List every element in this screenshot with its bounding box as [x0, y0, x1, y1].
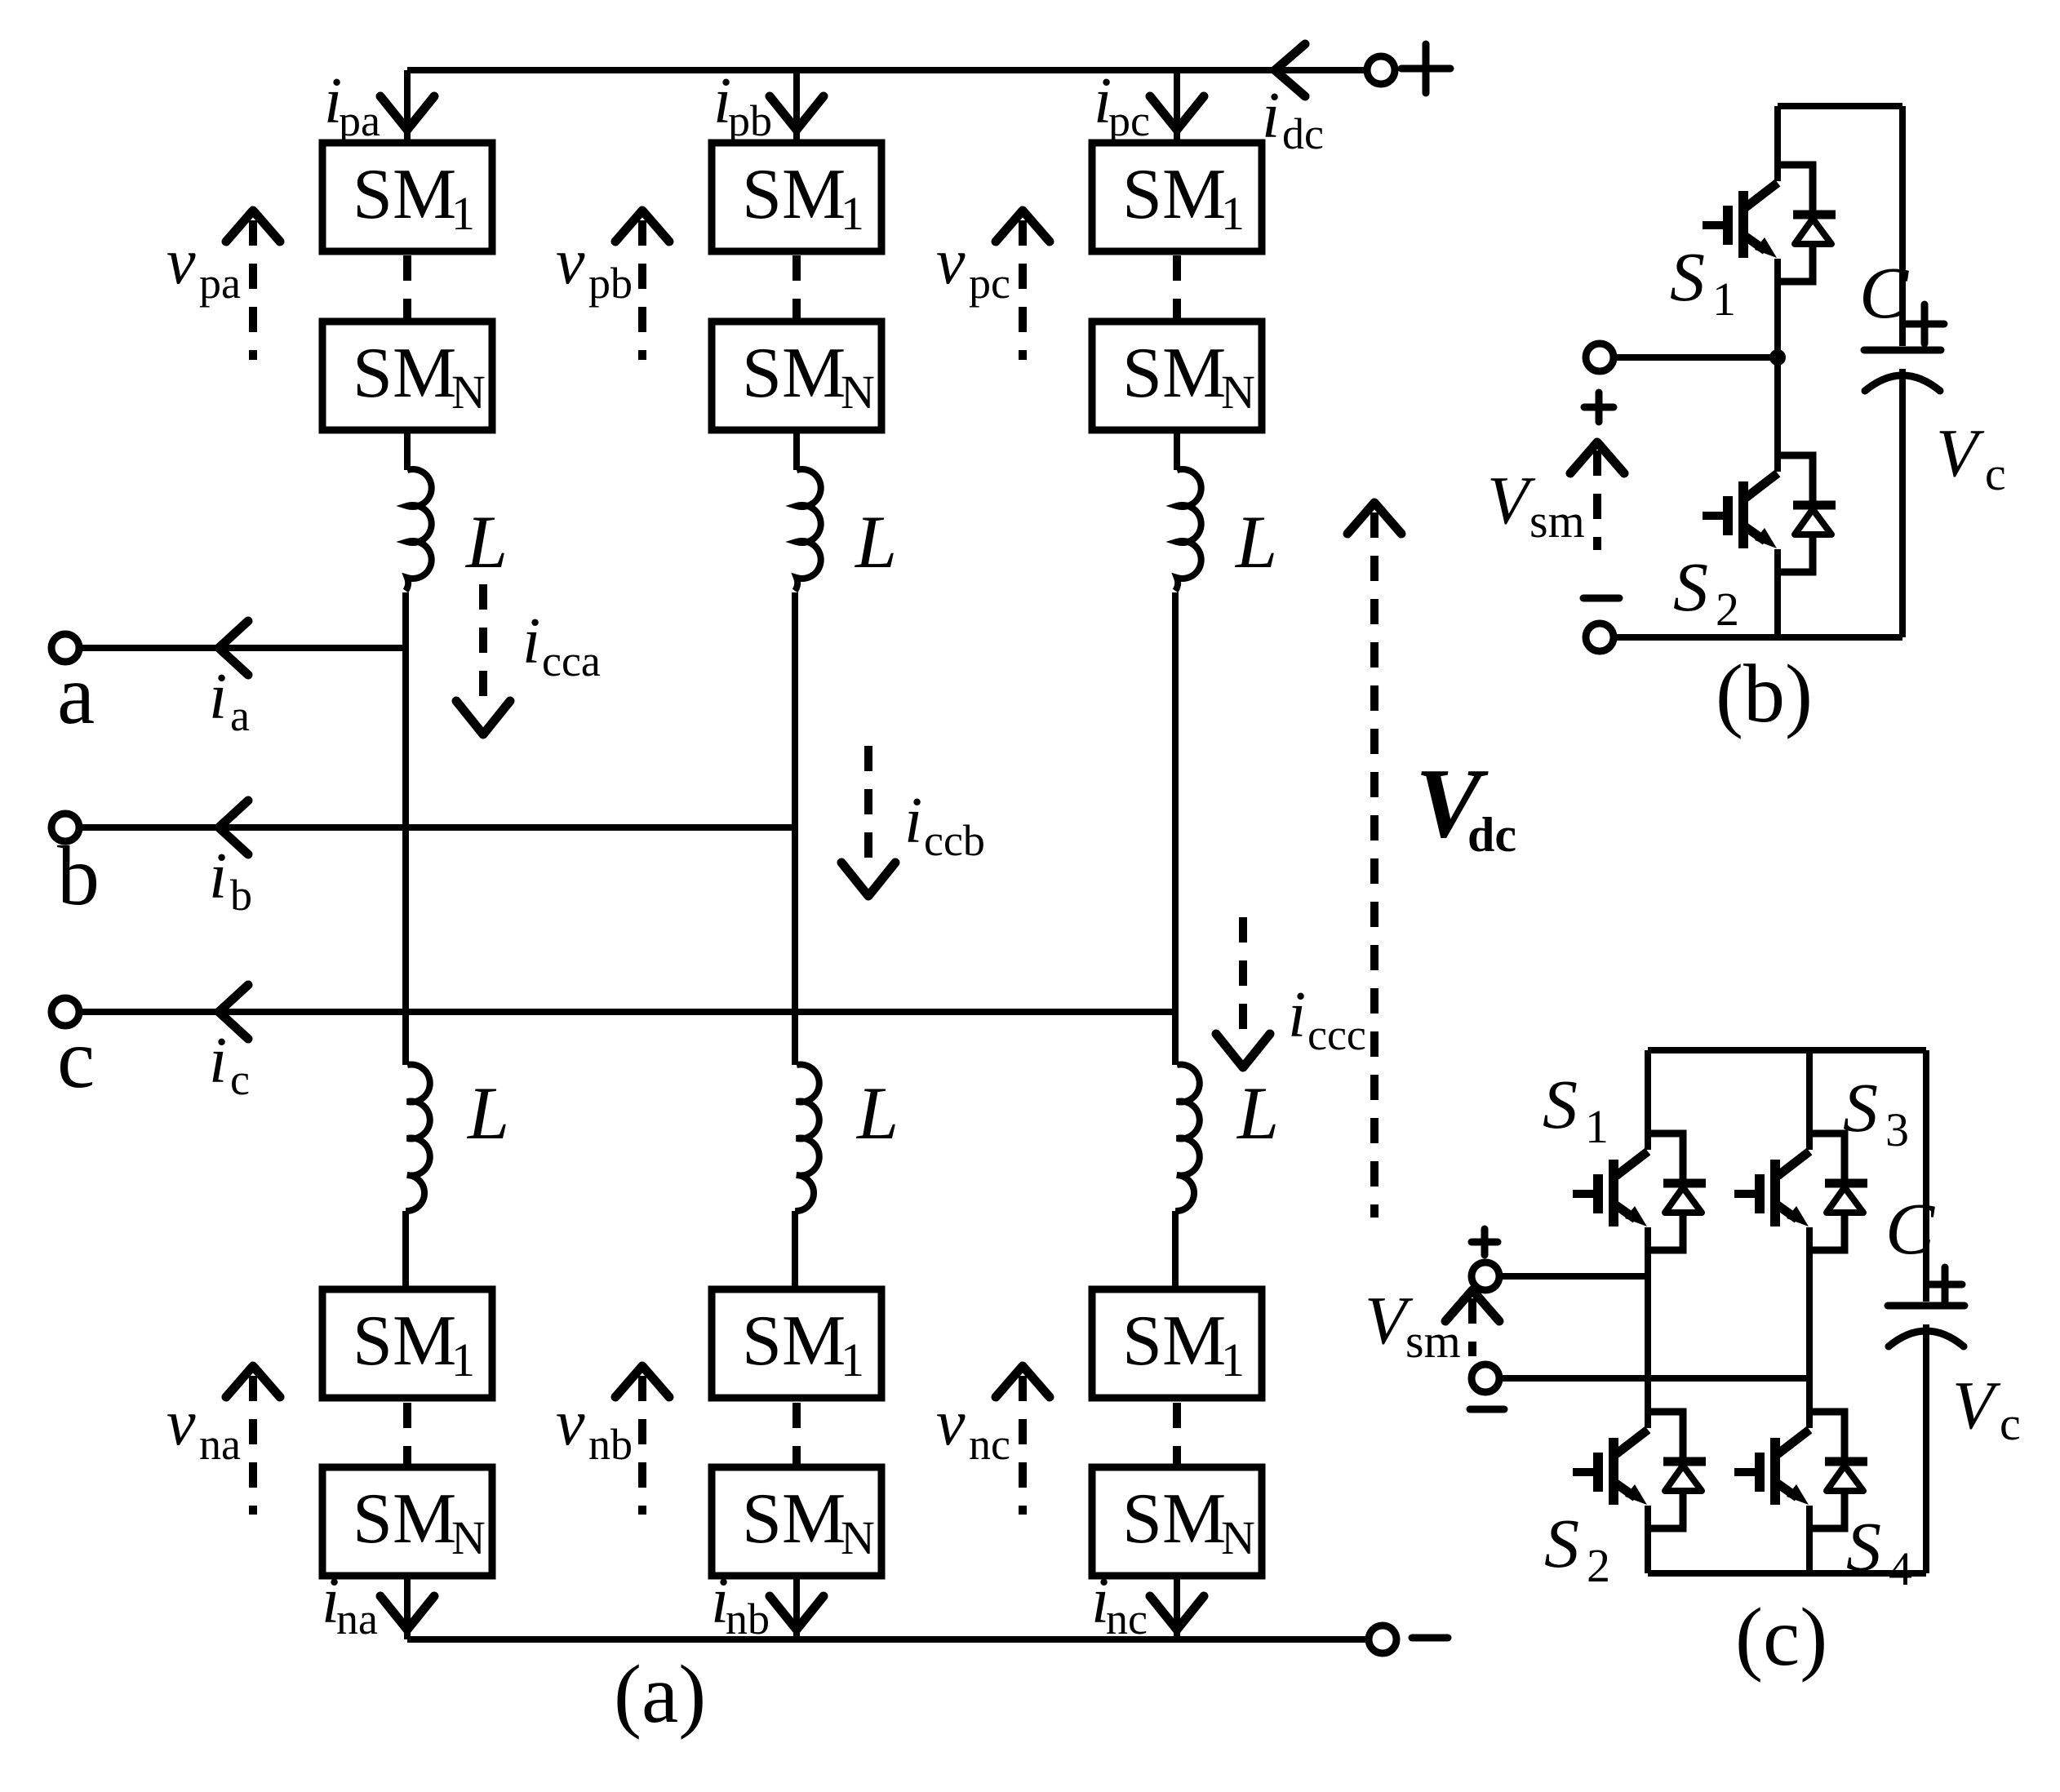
svg-text:SM: SM [353, 334, 456, 413]
wire from lower inductor to SM1 lower c [1172, 1211, 1179, 1289]
svg-text:v: v [166, 1387, 196, 1459]
dashed wire: series submodules upper arm a [403, 255, 411, 320]
submodule box SM1 lower arm b [712, 1289, 881, 1398]
(c) wire: right leg segments [1806, 1050, 1813, 1573]
svg-text:C: C [1885, 1189, 1935, 1270]
(b) input terminal + [1586, 344, 1614, 371]
svg-text:L: L [854, 500, 897, 583]
svg-text:v: v [166, 226, 196, 298]
(b) wire: S2 emitter to bottom rail [1774, 549, 1781, 637]
dashed wire: series submodules lower arm b [792, 1403, 801, 1466]
capacitor C of half-bridge [1899, 106, 1906, 346]
svg-text:na: na [199, 1420, 241, 1469]
current arrow i_na [380, 1596, 434, 1630]
svg-text:(a): (a) [614, 1648, 706, 1741]
svg-text:SM: SM [1122, 334, 1226, 413]
svg-text:S: S [1543, 1065, 1578, 1143]
dashed wire: series submodules upper arm c [1173, 255, 1181, 320]
svg-text:SM: SM [353, 1479, 456, 1559]
wire from SMN to arm inductor upper a [404, 430, 411, 470]
circulating current arrow i_ccb (dashed) [864, 746, 872, 870]
- sign at (c) input [1470, 1406, 1504, 1413]
svg-text:SM: SM [742, 1302, 846, 1381]
inductor L upper arm b [795, 469, 821, 591]
voltage arrow V_sm (dashed, upward) [1570, 442, 1624, 473]
transistor S2 (IGBT with antiparallel diode) [1703, 455, 1836, 572]
voltage arrow v_na (dashed, upward) [226, 1366, 280, 1397]
svg-text:4: 4 [1889, 1542, 1912, 1595]
node: leg b top connection to DC+ bus [793, 70, 800, 143]
current arrow i_pa [380, 96, 434, 130]
svg-text:S: S [1670, 237, 1705, 316]
svg-text:nc: nc [969, 1420, 1010, 1469]
DC - terminal [1369, 1626, 1396, 1653]
svg-text:N: N [1221, 1511, 1255, 1564]
current arrow i_pb [770, 96, 824, 130]
AC terminal b [51, 814, 79, 841]
voltage arrow v_pc (dashed, upward) [996, 211, 1050, 242]
wire from SMN to arm inductor upper b [793, 430, 800, 470]
(c) input terminal + [1472, 1262, 1499, 1290]
transistor S3 of full-bridge [1734, 1133, 1867, 1250]
dashed wire: series submodules lower arm a [403, 1403, 411, 1466]
svg-text:i: i [209, 841, 227, 912]
dashed wire: series submodules upper arm b [792, 255, 801, 320]
circulating current arrow i_cca (dashed) [479, 584, 487, 708]
wire: negative DC bus [407, 1636, 1370, 1643]
transistor S2 of full-bridge [1573, 1412, 1706, 1528]
+ sign at submodule input [1584, 393, 1614, 422]
dashed wire: series submodules lower arm c [1173, 1403, 1181, 1466]
(b) wire: input to midpoint [1612, 354, 1778, 361]
(b) input terminal - [1586, 623, 1614, 651]
svg-text:L: L [1234, 500, 1277, 583]
svg-text:nb: nb [726, 1595, 770, 1643]
voltage arrow v_nb (dashed, upward) [615, 1366, 669, 1397]
current arrow i_dc on DC bus [1275, 44, 1305, 96]
current arrow i_b [219, 801, 248, 854]
wire: leg b bottom to DC- bus [793, 1576, 800, 1639]
inductor L lower arm c [1175, 1065, 1200, 1212]
circulating current arrow i_ccc (dashed) [1239, 917, 1247, 1041]
svg-text:i: i [904, 785, 922, 857]
svg-text:S: S [1846, 1507, 1881, 1586]
svg-text:dc: dc [1282, 109, 1324, 158]
svg-text:1: 1 [451, 1333, 475, 1386]
svg-text:c: c [230, 1055, 250, 1104]
wire: positive DC bus [407, 67, 1369, 73]
(b) wire: leg collector segment [1774, 106, 1781, 181]
svg-text:S: S [1673, 548, 1708, 626]
svg-text:(c): (c) [1735, 1591, 1827, 1683]
svg-text:V: V [1936, 415, 1985, 491]
DC voltage arrow V_dc (dashed, upward) [1347, 503, 1401, 534]
svg-text:b: b [230, 871, 252, 920]
wire: leg b vertical through AC node [792, 592, 798, 1065]
svg-text:b: b [57, 829, 100, 923]
svg-text:c: c [1985, 447, 2006, 500]
wire: leg c bottom to DC- bus [1174, 1576, 1180, 1639]
inductor L lower arm a [406, 1065, 430, 1212]
svg-text:S: S [1843, 1068, 1878, 1147]
svg-text:L: L [1236, 1071, 1279, 1155]
svg-text:N: N [451, 366, 486, 419]
wire: leg a vertical through AC node [402, 592, 409, 1065]
inductor L upper arm a [406, 469, 432, 591]
inductor L upper arm c [1175, 469, 1201, 591]
svg-text:pa: pa [339, 96, 380, 145]
(c) wire: bottom rail of full-bridge [1648, 1570, 1926, 1577]
(c) wire: left leg segments [1645, 1050, 1651, 1573]
svg-text:sm: sm [1405, 1315, 1461, 1368]
voltage arrow V_sm of (c) (dashed, upward) [1445, 1290, 1499, 1321]
svg-text:v: v [936, 1387, 966, 1459]
svg-text:N: N [841, 1511, 875, 1564]
svg-text:L: L [466, 1071, 509, 1155]
svg-text:i: i [209, 661, 227, 733]
DC + terminal [1367, 56, 1395, 84]
svg-text:pa: pa [199, 259, 241, 308]
svg-text:a: a [230, 691, 250, 740]
svg-text:ccc: ccc [1307, 1010, 1366, 1059]
svg-text:nc: nc [1106, 1595, 1148, 1643]
capacitor C of full-bridge [1923, 1050, 1929, 1302]
submodule box SMN upper arm a [322, 322, 492, 430]
svg-text:V: V [1952, 1368, 2001, 1444]
current arrow i_c [219, 985, 248, 1039]
svg-text:cca: cca [542, 637, 601, 685]
svg-text:1: 1 [1712, 273, 1736, 326]
submodule box SM1 lower arm a [322, 1289, 492, 1398]
junction dot at midpoint [1769, 349, 1786, 366]
+ sign at DC terminal [1401, 44, 1450, 93]
(b) wire: top rail of half-bridge [1778, 103, 1902, 109]
submodule box SM1 upper arm c [1092, 143, 1262, 251]
submodule box SM1 upper arm a [322, 143, 492, 251]
submodule box SMN upper arm b [712, 322, 881, 430]
voltage arrow v_nc (dashed, upward) [996, 1366, 1050, 1397]
submodule box SM1 upper arm b [712, 143, 881, 251]
svg-text:1: 1 [841, 187, 864, 240]
node: leg c top connection to DC+ bus [1174, 70, 1180, 143]
svg-text:1: 1 [1221, 187, 1245, 240]
svg-text:3: 3 [1885, 1103, 1909, 1156]
svg-text:v: v [936, 226, 966, 298]
svg-text:i: i [1288, 979, 1306, 1051]
svg-text:ccb: ccb [924, 816, 985, 865]
svg-text:pc: pc [1108, 96, 1150, 145]
svg-text:pc: pc [969, 259, 1010, 308]
inductor L lower arm b [795, 1065, 819, 1212]
wire from lower inductor to SM1 lower b [792, 1211, 798, 1289]
svg-text:1: 1 [1221, 1333, 1245, 1386]
(b) wire: midpoint segment between S1 and S2 [1774, 259, 1781, 472]
wire: phase a to leg midpoint [78, 645, 407, 651]
current arrow i_a [219, 621, 248, 675]
+ sign at (c) capacitor [1928, 1267, 1962, 1302]
svg-text:sm: sm [1529, 495, 1585, 548]
svg-text:SM: SM [1122, 1479, 1226, 1559]
svg-text:v: v [556, 226, 585, 298]
svg-text:c: c [2000, 1397, 2021, 1450]
svg-text:1: 1 [451, 187, 475, 240]
transistor S1 (IGBT with antiparallel diode) [1703, 165, 1836, 282]
+ sign at capacitor [1905, 304, 1944, 344]
svg-text:N: N [1221, 366, 1255, 419]
svg-text:C: C [1859, 253, 1909, 334]
svg-text:SM: SM [353, 155, 456, 234]
svg-text:a: a [57, 648, 95, 742]
svg-text:2: 2 [1587, 1539, 1610, 1592]
svg-text:SM: SM [1122, 1302, 1226, 1381]
svg-text:SM: SM [742, 155, 846, 234]
wire: leg a bottom to DC- bus [404, 1576, 411, 1639]
svg-text:SM: SM [353, 1302, 456, 1381]
- sign at submodule input [1583, 595, 1619, 602]
svg-text:c: c [57, 1012, 95, 1106]
svg-text:2: 2 [1716, 583, 1739, 636]
wire from SMN to arm inductor upper c [1174, 430, 1180, 470]
submodule box SMN lower arm b [712, 1467, 881, 1576]
current arrow i_nb [770, 1596, 824, 1630]
svg-text:N: N [451, 1511, 486, 1564]
svg-text:SM: SM [742, 1479, 846, 1559]
submodule box SMN lower arm a [322, 1467, 492, 1576]
current arrow i_pc [1150, 96, 1204, 130]
svg-text:L: L [464, 500, 508, 583]
transistor S4 of full-bridge [1734, 1412, 1867, 1528]
(c) input terminal - [1472, 1364, 1499, 1392]
svg-text:(b): (b) [1716, 648, 1813, 740]
svg-text:1: 1 [841, 1333, 864, 1386]
voltage arrow v_pb (dashed, upward) [615, 211, 669, 242]
svg-text:pb: pb [728, 96, 772, 145]
submodule box SM1 lower arm c [1092, 1289, 1262, 1398]
(b) wire: bottom rail [1612, 634, 1902, 641]
AC terminal a [51, 634, 79, 662]
transistor S1 of full-bridge [1573, 1133, 1706, 1250]
wire: leg c vertical through AC node [1172, 592, 1179, 1065]
- sign at DC terminal [1412, 1635, 1448, 1642]
+ sign at (c) input [1472, 1229, 1498, 1255]
svg-text:1: 1 [1585, 1100, 1609, 1153]
svg-text:v: v [556, 1387, 585, 1459]
svg-text:N: N [841, 366, 875, 419]
svg-text:nb: nb [588, 1420, 633, 1469]
(c) wire: top rail of full-bridge [1648, 1047, 1926, 1053]
svg-text:S: S [1544, 1504, 1579, 1582]
svg-text:SM: SM [742, 334, 846, 413]
wire from lower inductor to SM1 lower a [402, 1211, 409, 1289]
current arrow i_nc [1150, 1596, 1204, 1630]
submodule box SMN lower arm c [1092, 1467, 1262, 1576]
svg-text:i: i [209, 1025, 227, 1097]
svg-text:dc: dc [1467, 808, 1516, 862]
svg-text:i: i [522, 605, 540, 677]
(c) wire: - input to right leg midpoint [1498, 1375, 1809, 1382]
wire: phase c to leg midpoint [78, 1009, 1177, 1015]
voltage arrow v_pa (dashed, upward) [226, 211, 280, 242]
svg-text:SM: SM [1122, 155, 1226, 234]
wire: phase b to leg midpoint [78, 824, 797, 831]
node: leg a top connection to DC+ bus [404, 70, 411, 143]
svg-text:V: V [1487, 463, 1536, 539]
submodule box SMN upper arm c [1092, 322, 1262, 430]
AC terminal c [51, 998, 79, 1026]
svg-text:L: L [855, 1071, 899, 1155]
svg-text:pb: pb [588, 259, 633, 308]
(c) wire: + input to left leg midpoint [1498, 1273, 1648, 1280]
svg-text:na: na [336, 1595, 378, 1643]
